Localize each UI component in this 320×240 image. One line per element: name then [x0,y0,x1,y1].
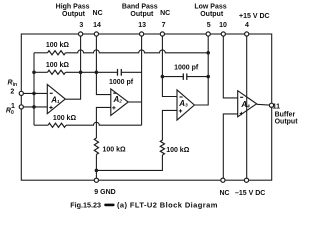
svg-text:100 kΩ: 100 kΩ [46,62,70,69]
pin 7 terminal [160,32,164,36]
resistor R3 100k (bottom feedback) [48,123,66,127]
svg-text:2: 2 [10,88,14,95]
svg-text:Output: Output [62,11,86,18]
wire: R5 down and GND row [96,155,162,170]
svg-text:–15 V DC: –15 V DC [235,190,265,197]
svg-text:13: 13 [138,22,146,29]
wire: A2 + input branch [96,107,110,138]
pin 11 terminal [269,103,273,107]
svg-text:NC: NC [93,10,103,17]
op-amp A2 [111,89,128,116]
svg-text:(a) FLT-U2 Block Diagram: (a) FLT-U2 Block Diagram [117,200,218,209]
svg-text:A4: A4 [240,100,250,109]
wire: A4 + input branch to bottom NC pin [223,114,237,180]
svg-text:7: 7 [162,22,166,29]
wire: +15V pin4 vertical to -15V pin [246,36,248,180]
svg-text:NC: NC [219,190,229,197]
svg-text:Output: Output [200,11,224,18]
pin 14 terminal [94,32,98,36]
svg-text:Output: Output [130,11,154,18]
svg-text:100 kΩ: 100 kΩ [103,147,127,154]
pin 13 terminal [140,32,144,36]
svg-text:100 kΩ: 100 kΩ [166,147,190,154]
pin 4 terminal [245,32,249,36]
resistor R2 100k (second feedback row) [48,70,66,74]
wire: row1 with hops to pin5 line [66,50,209,53]
wire: pin14 vertical to A2 inv input [96,36,110,95]
svg-text:High Pass: High Pass [56,4,90,11]
wire: A4 output to pin11 [257,103,272,106]
svg-text:Rin: Rin [8,80,18,89]
capacitor C1 1000pf (A2 feedback) [117,69,119,76]
resistor R4 100k (vertical, left) [94,138,98,155]
wire: Rin pin2 row [21,92,47,94]
pin NCb terminal [221,178,225,182]
wire: pin7 vertical to A3 inv input [162,36,177,97]
wire: row2 segments [34,71,48,73]
svg-text:NC: NC [160,10,170,17]
pin 9 terminal [94,178,98,182]
pin 1 terminal [19,105,23,109]
wire: pin10 vertical to A4 inv input [223,36,237,98]
pin 5 terminal [206,32,210,36]
wire: left input bus [33,53,35,125]
wire: R4 to GND pin9 [95,155,97,181]
wire: cap right to A2 output line [121,71,141,73]
op-amp A1 [47,84,65,113]
svg-text:3: 3 [79,22,83,29]
svg-text:Buffer: Buffer [275,111,296,118]
svg-text:+15 V DC: +15 V DC [239,13,270,20]
resistor R1 100k (top feedback row) [48,51,66,55]
svg-text:4: 4 [245,22,249,29]
pin 3 terminal [79,32,83,36]
wire: A3 cap row right [187,76,208,78]
op-amp A4 [238,91,257,117]
capacitor C2 1000pf (A3 feedback) [182,73,184,80]
wire: pin3 HP vertical [65,36,80,99]
svg-text:Low Pass: Low Pass [194,4,226,11]
pin m15 terminal [244,178,248,182]
svg-text:11: 11 [273,104,281,111]
svg-text:1000 pf: 1000 pf [174,64,199,71]
svg-text:Output: Output [275,119,299,126]
svg-text:100 kΩ: 100 kΩ [46,42,70,49]
wire: A2 output [128,101,141,103]
svg-text:5: 5 [207,22,211,29]
wire: A3 cap row left [162,76,183,78]
svg-text:A1: A1 [50,96,60,105]
resistor R5 100k (vertical, right) [160,140,164,155]
wire: A3 + input branch [162,110,177,140]
wire: bottom feedback row with hop [34,124,48,126]
svg-text:10: 10 [219,22,227,29]
svg-text:A3: A3 [178,99,188,108]
svg-text:9 GND: 9 GND [94,189,115,196]
wire: R0 pin1 row [21,106,47,108]
wire: pin13 BP vertical [141,36,143,125]
svg-text:14: 14 [93,22,101,29]
svg-text:1000 pf: 1000 pf [109,79,134,86]
svg-text:100 kΩ: 100 kΩ [53,115,77,122]
svg-text:Band Pass: Band Pass [122,4,158,11]
IC package border [21,34,271,180]
wire: row1 left stub [34,52,48,54]
junction dots [32,71,36,75]
op-amp A3 [177,90,194,120]
pin 2 terminal [19,91,23,95]
svg-text:Fig.15.23: Fig.15.23 [70,200,101,209]
wire: pin5 LP vertical [194,36,208,105]
pin 10 terminal [221,32,225,36]
